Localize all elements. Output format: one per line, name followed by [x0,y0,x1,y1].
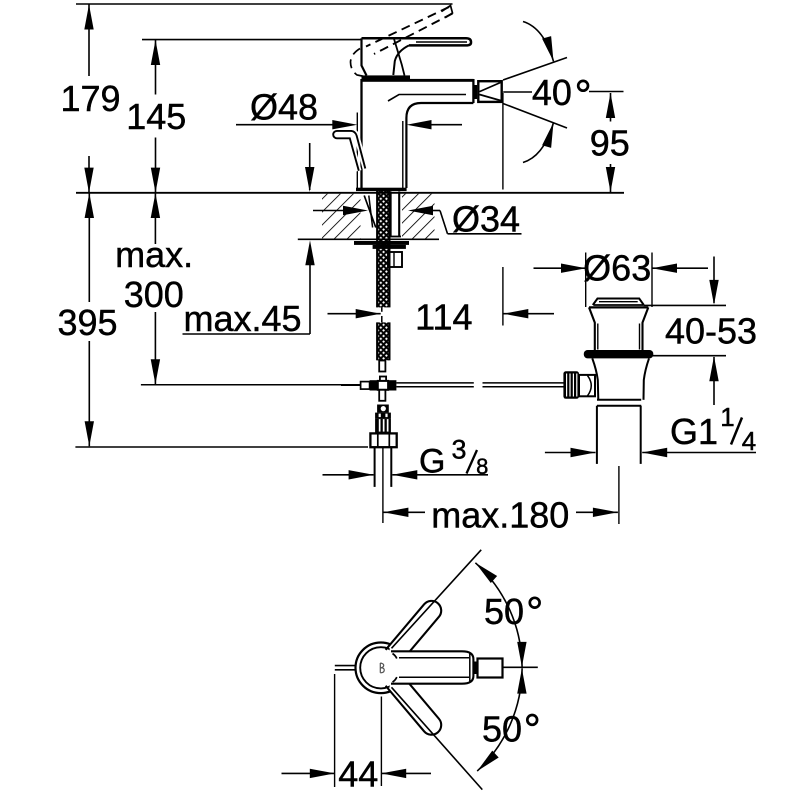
arrow dim Ø63 right [652,264,677,273]
svg-text:Ø34: Ø34 [452,199,520,240]
arrow dim 395 top [85,193,94,218]
drain body [592,358,598,399]
arrow dim Ø48 left [332,120,357,129]
hose end neck [379,361,385,372]
G3/8 hex nut [370,433,396,447]
dashed handle tip [442,6,453,18]
dim 40-53 reference lines [644,304,727,306]
ext line aerator [502,93,504,190]
handle bar upper [386,597,446,662]
handle base right edge [394,39,405,76]
spout top view fill [390,651,473,683]
svg-text:8: 8 [476,454,488,479]
svg-text:G1: G1 [670,411,718,452]
svg-text:Ø48: Ø48 [250,87,318,128]
dim 40-53 lines [713,257,715,304]
reference line 395 bottom [75,446,368,448]
arrow arc 50deg lower start [474,751,499,775]
T-junction bottom neck [379,390,385,401]
connection tube [374,447,376,487]
dim 395 lines [88,193,90,302]
svg-text:3: 3 [451,435,466,465]
counter hatch right [402,194,435,239]
T-junction body [378,381,388,390]
pop-up rod connector box [388,252,402,267]
T-junction left wing [370,380,378,390]
braided hose upper [377,191,389,308]
arrow dim max300 bottom [151,359,160,384]
svg-text:4: 4 [742,426,756,456]
arrows [84,5,718,779]
svg-text:40-53: 40-53 [665,311,757,352]
ext lines 44 [334,674,336,787]
braided hose lower [377,322,389,360]
handle base shadow [362,75,411,79]
T-junction right wing [388,380,396,390]
svg-text:179: 179 [60,78,120,119]
svg-text:114: 114 [415,297,472,338]
arc arrow 40deg upper [523,22,554,62]
arrow dim Ø34 right [408,206,433,215]
dashed raised handle [351,7,453,78]
axis line [503,666,538,668]
check valve body [375,413,391,419]
tube centre ext line [382,447,384,523]
svg-text:44: 44 [338,754,378,795]
arrow dim Ø48 right [407,120,432,129]
dim 179 lines [88,5,90,77]
ray upper 50 [392,550,482,649]
dim max45 leader [309,143,311,190]
spout inner line [402,121,404,188]
rod left (top view) [335,665,356,667]
ext line drain pipe centre [618,466,620,524]
svg-text:max.180: max.180 [431,494,569,535]
dim Ø63 lines [534,267,587,269]
arc arrow 40deg lower [523,123,554,163]
arrow dim 44 right [381,769,406,778]
pop-up rod to drain [396,382,473,384]
dim max300 lines [154,193,156,244]
svg-text:395: 395 [57,302,117,343]
dimension texts [57,72,757,795]
spout underside [406,103,473,188]
svg-text:300: 300 [124,274,184,315]
dim 95 lines [610,93,612,122]
check valve top disc [377,405,389,413]
svg-text:max.: max. [115,234,193,275]
knurled knob [563,371,579,399]
svg-text:40: 40 [532,72,572,113]
arrow dim 95 top [606,93,615,118]
arrow dim max180 right [593,508,618,517]
svg-text:G: G [419,442,445,480]
arrow dim 145 bottom [151,168,160,193]
body right edge [472,79,474,103]
aerator box [478,81,501,102]
dim 40deg leader lines [503,91,532,93]
arrow dim 44 left [310,769,335,778]
arc 50 lower [477,668,522,771]
ray lower 50 [392,687,483,789]
arrow dim 395 bottom [85,421,94,446]
spout top view outline [391,651,473,683]
arc 50 upper [475,563,522,668]
svg-text:145: 145 [126,96,186,137]
arrow dim G3/8 right [392,470,417,479]
lever underside shade [416,41,467,43]
O-ring seal [584,350,654,358]
svg-text:1: 1 [720,402,734,432]
check valve knurl [375,418,391,433]
T-junction left end piece [361,382,370,390]
handle neck [393,45,409,75]
reference line rod level [141,384,361,386]
bottom view [335,550,538,790]
arrow dim Ø63 left [561,264,586,273]
arrow dim G3/8 left [349,470,374,479]
logo mark [380,663,384,673]
arrow arc 40deg lower [542,121,558,148]
handle lever [362,38,472,45]
spout inner lines [399,657,469,659]
spout inner contour [388,95,466,102]
pull rod [350,131,366,171]
svg-text:50: 50 [484,591,524,632]
arrow dim max180 left [383,508,408,517]
arrow dim 95 bottom [606,167,615,192]
svg-text:Ø63: Ø63 [583,248,651,289]
extension line handle level [142,39,362,41]
T-junction top stub [380,377,386,382]
left rod line [341,384,361,386]
arrow dim max300 top [151,193,160,218]
counter top line [76,192,624,194]
handle bar lower [386,673,446,738]
inner circle ticks [393,654,397,659]
svg-text:50: 50 [482,709,522,750]
coupling ring [597,399,641,401]
extension line spout-tip level [76,3,453,5]
arc 50 arrows [472,559,526,774]
drain assembly [396,299,653,464]
handle base left edge [362,38,367,75]
dim 145 lines [155,40,157,95]
body inner circle [360,647,401,688]
mounting nut [373,245,406,249]
arrow dim 114 right [503,309,528,318]
body top edge [362,79,474,82]
hose centre line break [381,307,383,311]
ext lines Ø63 [585,253,587,308]
arrow dim G1-1/4 left [571,448,596,457]
aerator seal bar [474,85,478,99]
arrow dim 114 left [356,309,381,318]
body left edge [360,79,362,188]
anchor wedge lines in hole [364,196,376,228]
aerator wedge [480,83,501,101]
mounting washer [354,241,409,245]
ext line Ø48 [356,113,358,191]
aerator tip [478,659,503,678]
dim G1 1/4 lines [545,452,596,454]
ray 40deg upper [503,58,567,81]
drain cone flange [589,306,648,308]
knob housing [579,375,595,396]
dim 44 lines [282,772,335,774]
arrow dim 40-53 top [709,280,718,305]
arrow dim G1-1/4 right [642,448,667,457]
arrow dim 179 top [84,5,93,30]
body outer circle [356,643,407,694]
ray 40deg lower [503,104,567,129]
dim 114 lines [328,313,381,315]
arrow arc 50deg upper end [517,642,526,667]
dim Ø48 lines [236,124,334,126]
drain cap [593,299,644,306]
counter bottom line [298,238,439,240]
arrow dim 179 bottom [84,168,93,193]
arrow dim max45 top [305,167,314,192]
dim max180 lines [383,511,425,513]
faucet front view [333,6,502,524]
arrow dim 40-53 bottom [709,356,718,381]
base flange [356,188,407,191]
svg-text:max.45: max.45 [183,298,301,339]
tailpipe [596,406,598,464]
dim Ø34 lines [313,210,345,212]
arrow arc 50deg lower end [517,669,526,694]
arrow dim Ø34 left [343,206,368,215]
arrow dim 145 top [151,40,160,65]
arrow dim max45 bottom [305,240,314,265]
shank tube [390,192,392,237]
arrow arc 40deg upper [542,36,558,63]
dim G 3/8 lines [323,474,374,476]
svg-text:95: 95 [590,123,630,164]
arrow arc 50deg upper start [472,559,497,583]
counter hatch left [322,194,361,239]
aerator connector [474,662,478,675]
